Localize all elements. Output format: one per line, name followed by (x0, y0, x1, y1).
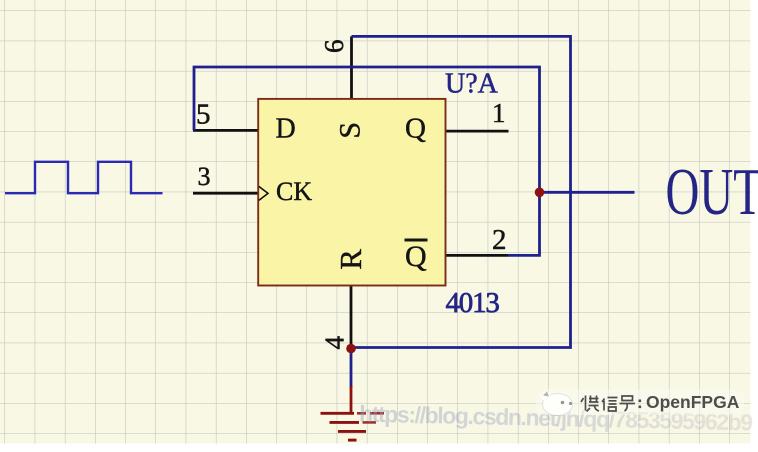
svg-text:U?A: U?A (445, 68, 499, 99)
svg-text:3: 3 (198, 162, 211, 191)
svg-text:R: R (333, 249, 368, 270)
svg-text:5: 5 (196, 99, 211, 131)
svg-text:6: 6 (319, 40, 349, 54)
ground bar 1 (321, 412, 355, 415)
watermark caption halo (536, 389, 744, 415)
junction node at pin 4 (346, 344, 356, 354)
wire Qbar-to-D feedback net (194, 67, 540, 255)
svg-text:CK: CK (276, 177, 312, 206)
svg-text:2: 2 (492, 224, 507, 256)
Qbar overline (405, 239, 428, 242)
ground bar 3 (338, 430, 366, 433)
svg-text:D: D (276, 113, 296, 144)
junction node at OUT (535, 188, 545, 198)
svg-text:S: S (334, 122, 367, 139)
pin 5 stub (D) (193, 129, 258, 132)
svg-text:1: 1 (492, 98, 506, 128)
pin 1 stub (Q) (446, 130, 509, 133)
pin 2 stub (Qbar) (446, 254, 509, 257)
pin 6 stub (S) (350, 36, 353, 99)
op-amp U?A body (4013 flip-flop) (258, 99, 445, 286)
ground lead (red part) (350, 386, 353, 413)
svg-text:Q: Q (405, 113, 426, 145)
svg-text:4: 4 (320, 336, 350, 350)
svg-text:Q: Q (405, 240, 427, 273)
watermark caption hanzi hao (620, 396, 636, 411)
ground bar 2 (330, 421, 360, 424)
clock input triangle on CK pin (259, 186, 268, 200)
svg-text:OpenFPGA: OpenFPGA (646, 392, 740, 412)
wire ground lead (blue part) (350, 348, 353, 389)
wire S/R-to-ground net (350, 36, 571, 347)
watermark logo icon (542, 392, 573, 416)
watermark caption hanzi xin (602, 398, 618, 412)
watermark caption hanzi wei (581, 396, 599, 412)
wire square-wave clock source symbol (5, 162, 163, 193)
svg-text:OUT: OUT (666, 154, 758, 229)
pin 4 stub (R) (350, 286, 353, 349)
ground bar 4 (348, 439, 357, 442)
wire OUT branch (540, 191, 635, 194)
svg-text:4013: 4013 (446, 287, 500, 319)
pin 3 stub (CK) (193, 192, 258, 195)
watermark caption colon (639, 400, 642, 409)
